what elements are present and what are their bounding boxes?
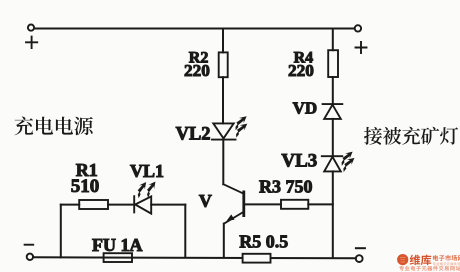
- wire VL2 to transistor collector: [222, 140, 224, 185]
- watermark tagline: [399, 266, 460, 271]
- svg-text:FU 1A: FU 1A: [92, 235, 143, 255]
- wire top rail: [34, 28, 354, 30]
- wire branch right vertical: [184, 205, 186, 258]
- label VL2: [176, 124, 211, 144]
- wire VD to VL3: [332, 119, 334, 156]
- terminal top-right (+): [355, 25, 361, 31]
- svg-text:220: 220: [288, 61, 314, 80]
- fuse FU: [104, 253, 132, 262]
- wire branch left vertical: [60, 205, 62, 258]
- minus sign right: [356, 247, 365, 249]
- label R4 value 220: [288, 49, 314, 80]
- resistor R3: [281, 200, 308, 209]
- LED VL2: [212, 123, 236, 139]
- transistor emitter arrowhead: [227, 214, 235, 221]
- watermark logo disc: [397, 254, 408, 265]
- resistor R4: [328, 50, 338, 77]
- wire top rail to R2: [222, 29, 224, 53]
- annotation charging power 充电电源: [14, 116, 92, 135]
- wire base to R3: [244, 203, 281, 205]
- diode VD: [323, 104, 343, 119]
- plus sign left: [26, 37, 37, 48]
- wire bottom rail: [33, 257, 356, 258]
- wire R3 to right branch: [308, 203, 333, 205]
- label VL1: [130, 161, 164, 181]
- resistor R1: [79, 200, 108, 209]
- resistor R2: [219, 52, 228, 77]
- wire VL3 to bottom rail: [332, 171, 334, 258]
- label VL3: [281, 151, 317, 172]
- svg-text:VD: VD: [293, 98, 318, 117]
- svg-text:R5 0.5: R5 0.5: [239, 231, 288, 251]
- label R2 value 220: [184, 50, 210, 80]
- label R3 value 750: [259, 177, 313, 197]
- LED VL1: [134, 196, 151, 213]
- watermark 电子市场网: [433, 255, 460, 266]
- svg-text:R3 750: R3 750: [259, 177, 313, 197]
- terminal top-left (+): [28, 25, 34, 31]
- resistor R5: [243, 254, 271, 263]
- label VD: [293, 98, 318, 117]
- label FU 1A: [92, 235, 143, 255]
- wire R1 to VL1: [108, 204, 134, 206]
- wire emitter to bottom rail: [223, 224, 225, 258]
- LED VL3: [322, 156, 343, 171]
- watermark brand 维库: [410, 255, 432, 266]
- minus sign left: [25, 244, 34, 246]
- svg-text:V: V: [199, 191, 212, 211]
- VL3 emission arrows: [337, 149, 357, 172]
- plus sign right: [356, 42, 367, 53]
- wire branch to R1: [61, 204, 79, 206]
- label R5 value 0.5: [239, 231, 288, 251]
- VL1 emission arrows: [133, 179, 159, 198]
- wire VL1 to right vertical: [151, 204, 185, 206]
- wire top rail to R4: [332, 29, 334, 51]
- svg-text:220: 220: [184, 61, 210, 80]
- svg-text:VL1: VL1: [130, 161, 164, 181]
- terminal bottom-left (-): [27, 254, 33, 260]
- label V: [199, 191, 212, 211]
- VL2 emission arrows: [231, 114, 250, 138]
- svg-text:510: 510: [71, 176, 100, 197]
- wire R4 to VD: [332, 77, 334, 104]
- terminal bottom-right (-): [356, 255, 363, 262]
- annotation lamp 接被充矿灯: [364, 127, 458, 145]
- wire R2 to VL2: [222, 77, 224, 123]
- transistor V (NPN): [223, 184, 244, 223]
- label R1 value 510: [71, 160, 100, 197]
- svg-text:VL2: VL2: [176, 124, 211, 144]
- svg-text:VL3: VL3: [281, 151, 317, 172]
